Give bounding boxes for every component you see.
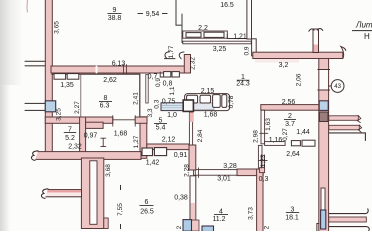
svg-text:2: 2 [264, 225, 271, 229]
svg-text:2,06: 2,06 [296, 73, 303, 86]
bathroom cabinet rects [164, 72, 171, 77]
left stub walls (top) [25, 61, 45, 66]
wall D window (blue) bottom [321, 210, 326, 229]
bathroom thin wall left [146, 75, 148, 104]
bottom-left wall band [34, 152, 141, 160]
wall F doorway thin part [194, 170, 238, 176]
svg-text:11.2: 11.2 [212, 216, 225, 223]
svg-text:6,13: 6,13 [112, 61, 126, 68]
svg-text:2,27: 2,27 [74, 101, 81, 114]
wall B : room9 bottom wall [51, 66, 186, 73]
svg-text:1,63: 1,63 [265, 118, 272, 131]
room6 bottom-left window (blue) [183, 220, 192, 232]
room7 right wall [80, 117, 86, 159]
svg-text:3,25: 3,25 [56, 108, 63, 121]
faint top-left page line [26, 0, 29, 12]
balcony right-middle band1 [329, 116, 359, 121]
room4 right wall [257, 169, 263, 232]
svg-text:3,28: 3,28 [223, 163, 237, 170]
circle 43 [329, 85, 331, 87]
small door-leaf mark [160, 72, 163, 77]
wall D dark block [319, 112, 328, 122]
svg-text:5.4: 5.4 [156, 125, 166, 132]
wall D bottom step [317, 224, 319, 232]
pink streak below column [190, 113, 194, 123]
balcony right-middle band2 [329, 125, 360, 130]
svg-text:5.2: 5.2 [65, 135, 75, 142]
column inner slot [90, 161, 97, 225]
closet compartment 1 [187, 95, 198, 103]
wall D white segment [320, 70, 328, 90]
room4 left wall pink bottom [191, 220, 199, 231]
wall G vertical room5 left [140, 117, 147, 159]
room8 door line [113, 119, 136, 121]
svg-text:2,64: 2,64 [286, 151, 300, 158]
svg-text:7,55: 7,55 [117, 203, 124, 216]
wall C end curl [341, 47, 346, 59]
window rect 2 [204, 32, 224, 37]
room8 box top line [52, 74, 140, 117]
Lit annotation top right [352, 21, 372, 42]
balcony right-middle lower line [329, 133, 366, 141]
tick on room2 left wall [260, 132, 268, 134]
svg-text:2,62: 2,62 [103, 77, 117, 84]
svg-text:2,15: 2,15 [201, 88, 215, 95]
left window (blue) [45, 101, 55, 112]
svg-text:3,68: 3,68 [105, 164, 112, 177]
wall D : right column [319, 59, 329, 232]
chimney flue [313, 29, 319, 53]
room4 left wall pink segment [191, 203, 196, 221]
svg-text:2,84: 2,84 [197, 129, 204, 142]
gray shelf band [178, 103, 214, 110]
svg-text:2,56: 2,56 [282, 99, 296, 106]
protrusion wall lower [44, 190, 82, 197]
wall G horizontal room5 bottom [147, 144, 190, 150]
corridor right thin wall [258, 145, 262, 175]
svg-text:26.5: 26.5 [140, 209, 154, 216]
wall F pink part [237, 169, 263, 176]
room2 shelf rect 1 [291, 141, 300, 146]
svg-text:Н: Н [364, 32, 370, 41]
room2 left thin wall [261, 110, 265, 144]
chimney top ticks [309, 29, 323, 32]
svg-text:2,32: 2,32 [68, 144, 82, 151]
svg-text:0,75: 0,75 [162, 98, 176, 105]
svg-text:1,23: 1,23 [260, 154, 267, 167]
window rect 1 [186, 33, 201, 38]
white column square [183, 100, 193, 111]
closet compartment 3 [213, 95, 221, 108]
svg-text:1,27: 1,27 [133, 135, 140, 148]
wall E : room2 top wall [261, 105, 319, 111]
svg-text:0,8: 0,8 [163, 80, 173, 87]
svg-text:0,91: 0,91 [174, 152, 188, 159]
svg-text:1,42: 1,42 [146, 159, 160, 166]
room8 door jambs [113, 116, 135, 127]
room2 bottom thin wall [265, 142, 286, 146]
svg-text:1,21: 1,21 [233, 34, 247, 41]
left window stub lines [25, 103, 45, 110]
squiggle lower [41, 189, 48, 199]
wall C : top right outer wall [253, 52, 343, 58]
room8 closet partition [80, 75, 82, 117]
room 16.5 left thin wall upper [175, 0, 177, 25]
room8 bottom wall right [135, 117, 147, 123]
partition lower face [183, 41, 252, 44]
svg-text:1,16: 1,16 [269, 137, 283, 144]
svg-text:3,25: 3,25 [213, 46, 227, 53]
svg-text:8: 8 [104, 95, 108, 102]
room8 bottom wall left [45, 117, 113, 123]
svg-text:1,77: 1,77 [168, 45, 175, 58]
closet compartment 2 [200, 95, 211, 103]
thin wall T2 right of room 16.5 [247, 0, 252, 39]
closet compartment 4 [222, 95, 227, 108]
svg-text:6: 6 [145, 199, 149, 206]
svg-text:0,27: 0,27 [282, 128, 289, 141]
door jambs wall F [195, 168, 198, 178]
pink smear below wall C [255, 59, 299, 63]
svg-text:18.1: 18.1 [285, 214, 299, 221]
svg-text:2,12: 2,12 [162, 136, 176, 143]
svg-text:2,2: 2,2 [198, 25, 208, 32]
svg-text:1,68: 1,68 [204, 111, 218, 118]
svg-text:0,38: 0,38 [174, 194, 188, 201]
room4 left wall [190, 176, 196, 232]
svg-text:1,68: 1,68 [114, 130, 128, 137]
bottom-left column [81, 158, 103, 229]
svg-text:1,35: 1,35 [60, 82, 74, 89]
window band partition top middle [183, 31, 228, 38]
closet rects under room5 wall [142, 148, 153, 156]
svg-text:24.3: 24.3 [236, 81, 250, 88]
column bottom-right pink nub [104, 218, 108, 229]
door jamb below stub [101, 138, 106, 146]
svg-text:2,98: 2,98 [253, 130, 260, 143]
door curl 1 [165, 52, 176, 59]
svg-text:Лит А: Лит А [355, 21, 372, 30]
room7 stub wall [86, 122, 104, 128]
svg-text:3,2: 3,2 [279, 62, 289, 69]
svg-text:2,28: 2,28 [184, 164, 191, 177]
door jamb ticks on wall B [124, 65, 127, 75]
svg-text:0,9: 0,9 [244, 46, 251, 55]
bathtub [161, 103, 183, 111]
corridor left wall vertical [189, 145, 196, 170]
svg-text:1,1: 1,1 [169, 86, 176, 95]
thin wall room5 right [189, 112, 192, 145]
wall D window (blue) top [319, 101, 328, 111]
svg-text:43: 43 [334, 84, 341, 90]
corner step above [260, 168, 265, 173]
svg-text:3.7: 3.7 [285, 121, 295, 128]
balcony bottom right [329, 209, 369, 232]
wall D joint ticks [318, 70, 330, 91]
svg-text:3,3: 3,3 [147, 108, 154, 117]
svg-text:3,73: 3,73 [248, 207, 255, 220]
closet room1 outline [185, 94, 230, 111]
svg-text:0,3: 0,3 [259, 176, 269, 183]
wall A : left outer wall [45, 0, 52, 159]
svg-text:3,01: 3,01 [217, 175, 231, 182]
svg-text:0,9: 0,9 [155, 78, 162, 87]
room 16.5 left thin wall lower [176, 14, 182, 43]
thin wall above corner [259, 155, 268, 168]
svg-text:0,3: 0,3 [154, 99, 161, 108]
room4 bottom window (blue) [202, 226, 214, 232]
svg-text:2,41: 2,41 [133, 92, 140, 105]
svg-text:1,0: 1,0 [167, 112, 177, 119]
wall riser x185 [184, 55, 190, 74]
svg-text:38.8: 38.8 [108, 15, 122, 22]
svg-text:2,32: 2,32 [190, 57, 197, 70]
svg-text:0,78: 0,78 [228, 95, 235, 108]
room2 shelf rect 2 [302, 140, 315, 146]
svg-text:9,54: 9,54 [146, 11, 160, 18]
scan edge [0, 0, 10, 231]
svg-text:16.5: 16.5 [220, 2, 234, 9]
room8 closet rects [54, 74, 66, 80]
svg-text:2: 2 [176, 225, 183, 229]
squiggle upper [31, 151, 38, 161]
svg-text:0,97: 0,97 [84, 133, 98, 140]
door curl 2 [179, 52, 184, 59]
wall D inner slot bottom [321, 188, 325, 210]
svg-text:3,65: 3,65 [54, 21, 61, 34]
svg-text:6.3: 6.3 [100, 103, 110, 110]
svg-text:1,44: 1,44 [296, 129, 310, 136]
